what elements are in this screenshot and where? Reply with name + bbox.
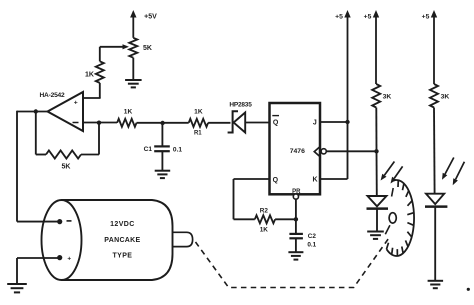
svg-text:C1: C1 — [144, 146, 153, 153]
motor shaft — [173, 232, 193, 246]
wire 3K to clock node — [375, 108, 377, 152]
chopper wheel extra slot near gap — [392, 188, 394, 197]
resistor 5K (feedback) — [46, 151, 81, 171]
svg-text:PANCAKE: PANCAKE — [104, 237, 140, 244]
flip-flop U2 7476 body — [270, 103, 321, 194]
photodiode D1 (LED symbol) — [367, 196, 389, 209]
svg-text:0.1: 0.1 — [173, 146, 182, 153]
node: C1 junction — [160, 121, 164, 125]
power +5 arrow (rail 3) — [422, 10, 438, 84]
wire 3K down to photodiode D2 — [433, 108, 436, 194]
pin J label — [313, 120, 317, 127]
svg-text:Q: Q — [273, 120, 279, 127]
chopper wheel slots (radial spokes) — [387, 180, 414, 256]
resistor 1K (to op-amp non-inverting input) — [85, 61, 104, 83]
svg-text:K: K — [312, 177, 317, 184]
wire 1K to op-amp + input — [83, 83, 101, 98]
pin PR label — [292, 189, 301, 195]
wire left rail down to motor - terminal — [17, 111, 58, 222]
preset PR inverting bubble — [293, 194, 298, 219]
svg-text:+: + — [67, 255, 71, 262]
chopper wheel hub hole — [385, 213, 396, 235]
resistor R1 1K — [189, 108, 208, 136]
wire wiper to resistor 1K — [99, 47, 101, 62]
ground (below photodiode D2) — [428, 281, 444, 288]
svg-text:HA-2542: HA-2542 — [40, 92, 66, 99]
ground (below C1) — [155, 151, 171, 178]
svg-text:C2: C2 — [308, 233, 317, 240]
light arrows into D1 — [381, 162, 403, 184]
pin Q label — [273, 177, 279, 184]
wire output node down to feedback resistor — [36, 112, 46, 155]
wire Q pin loop to R2 — [234, 179, 270, 219]
svg-text:1K: 1K — [260, 227, 269, 234]
resistor R2 1K — [255, 207, 275, 233]
ground (below photodiode D1) — [367, 209, 384, 239]
svg-text:+5V: +5V — [144, 13, 157, 20]
svg-text:7476: 7476 — [290, 148, 305, 155]
node: J junction on +5 rail — [345, 120, 349, 124]
wire R1 to diode — [208, 122, 230, 124]
wire clock to photodiode node — [326, 150, 376, 152]
svg-text:5K: 5K — [62, 164, 71, 171]
svg-text:HP2835: HP2835 — [229, 101, 252, 108]
node: PR / C2 junction — [294, 217, 298, 221]
chopper wheel rim (slotted disc) — [387, 180, 415, 256]
wire feedback to inverting input — [81, 123, 99, 155]
capacitor C2 0.1 — [289, 219, 316, 248]
resistor 3K (rail 3) — [430, 84, 449, 108]
svg-text:+5: +5 — [335, 14, 343, 21]
label TYPE — [112, 252, 132, 259]
svg-text:+: + — [74, 100, 78, 107]
node: op-amp output junction — [34, 109, 38, 113]
power +5 arrow (rail 1) — [335, 10, 351, 122]
clock input (right edge, inverted) — [314, 147, 326, 157]
svg-text:0.1: 0.1 — [307, 242, 316, 249]
wire +5 rail down to K pin — [320, 122, 348, 179]
motor M1 body (12VDC pancake) — [42, 200, 173, 280]
svg-text:+5: +5 — [364, 14, 372, 21]
svg-text:J: J — [313, 120, 317, 127]
diode HP2835 (Schottky, cathode left) — [228, 101, 253, 132]
wire clock node down to photodiode D1 — [376, 151, 378, 196]
resistor 1K (series from op-amp) — [117, 108, 136, 127]
svg-text:1K: 1K — [124, 108, 133, 115]
speck (period at bottom right) — [467, 288, 470, 291]
svg-text:1K: 1K — [85, 72, 94, 79]
svg-text:3K: 3K — [383, 94, 392, 101]
dashed mechanical coupling (shaft to wheel) — [196, 239, 389, 288]
light arrows into D2 — [442, 158, 464, 186]
potentiometer 5K — [129, 38, 152, 58]
potentiometer wiper arrow — [100, 44, 129, 49]
svg-text:R1: R1 — [194, 131, 202, 137]
wire op-amp - input row — [83, 122, 117, 124]
svg-text:+5: +5 — [422, 14, 430, 21]
wire diode to 7476 Q-bar pin — [245, 122, 269, 124]
wire C1 node to R1 — [163, 122, 189, 124]
pin Q-bar label — [272, 116, 279, 127]
capacitor C1 0.1 — [144, 123, 183, 153]
wire J pin to +5 rail — [320, 121, 348, 123]
wire R2 to PR node — [275, 218, 296, 220]
pin K label — [312, 177, 317, 184]
photodiode D2 (LED symbol) — [425, 194, 447, 207]
label PANCAKE — [104, 237, 140, 244]
ground (below potentiometer 5K) — [125, 58, 142, 88]
wire motor + terminal to ground — [17, 258, 58, 284]
svg-text:12VDC: 12VDC — [110, 221, 135, 228]
wire op-amp output to left rail — [17, 111, 48, 113]
node: clock / photodiode junction — [374, 149, 378, 153]
wire D2 down to ground — [434, 207, 436, 281]
resistor 3K (rail 2) — [372, 84, 391, 108]
power +5 arrow (rail 2) — [364, 10, 380, 84]
svg-text:R2: R2 — [260, 207, 269, 214]
motor + terminal — [57, 255, 71, 262]
motor - terminal — [57, 219, 71, 224]
ground (below C2) — [288, 238, 303, 259]
power +5V supply arrow (top left) — [130, 10, 157, 38]
svg-text:Q: Q — [273, 177, 279, 184]
node: inverting input junction — [97, 121, 101, 125]
op-amp U1 HA-2542 — [40, 92, 84, 131]
ground (motor return, bottom left) — [7, 284, 27, 292]
svg-text:3K: 3K — [441, 94, 450, 101]
svg-text:1K: 1K — [194, 108, 203, 115]
svg-text:5K: 5K — [143, 45, 152, 52]
svg-text:TYPE: TYPE — [112, 252, 132, 259]
label 12VDC — [110, 221, 135, 228]
wire 1K to C1 node — [137, 122, 163, 124]
